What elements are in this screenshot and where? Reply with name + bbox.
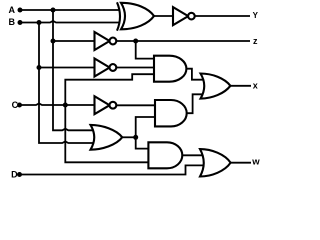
xor gate U1 input arc: [117, 2, 120, 30]
wire NOT1 output branch down to AND1 input 1: [136, 41, 156, 59]
wire OR2 output to x terminal: [230, 85, 251, 87]
node: input terminal D: [17, 172, 22, 177]
xor gate U1 body: [121, 3, 154, 30]
svg-text:A: A: [8, 5, 15, 15]
and gate U8 (bottom, to OR4): [148, 142, 182, 168]
and gate U6 (3-input, top): [154, 56, 186, 82]
node: input terminal A: [18, 8, 23, 13]
wire B horizontal to XOR (with hop over A-vertical): [20, 21, 120, 23]
node: junction A-vert to NOT1: [51, 39, 56, 44]
wire A vertical branch down to OR1 top input: [53, 10, 94, 130]
node: junction C line: [63, 103, 68, 108]
svg-text:x: x: [253, 81, 258, 91]
wire XOR output to NOT-Y: [154, 15, 173, 17]
wire C branch down to AND2 input 2: [65, 105, 150, 162]
svg-text:D: D: [11, 170, 18, 180]
node: input terminal B: [18, 20, 23, 25]
node: junction B-vert to NOT2: [37, 65, 42, 70]
wire D to OR4 bottom input: [20, 165, 204, 174]
wire AND1 output to OR2 top input: [186, 69, 204, 80]
inverter U4 (B-bar): [95, 59, 117, 77]
wire OR1 junction up to AND3 input 2: [136, 117, 157, 137]
inverter U5 (C-bar): [95, 96, 117, 114]
svg-text:w: w: [251, 157, 260, 168]
svg-text:C: C: [12, 100, 19, 110]
node: junction B line: [37, 20, 42, 25]
wire OR1 output to junction: [122, 136, 136, 138]
wire NOT1 output to z terminal: [117, 40, 250, 42]
svg-text:Y: Y: [253, 11, 259, 20]
wire OR4 output to w terminal: [231, 162, 251, 164]
wire NOT1 input from A vertical: [53, 40, 95, 42]
inverter U3 (A to z): [95, 32, 117, 50]
node: junction OR1 output: [133, 135, 138, 140]
wire AND3 output to OR2 bottom input: [187, 94, 204, 113]
or gate U11 (output w): [200, 149, 231, 176]
node: input terminal C: [17, 103, 22, 108]
node: junction A line: [51, 8, 56, 13]
wire A horizontal to XOR: [20, 9, 119, 11]
node: junction NOT1 output: [133, 39, 138, 44]
wire AND2 output to OR4 top input: [182, 154, 203, 156]
wire OR1 junction down to AND2 input 1: [136, 137, 150, 148]
wire NOT2 output to AND1 input 2: [117, 67, 156, 69]
svg-text:z: z: [253, 36, 258, 46]
wire NOT3 output to AND3 input 1: [117, 104, 157, 106]
and gate U7 (middle, to OR2): [155, 100, 187, 126]
wire B vertical branch down to OR1 bottom input: [39, 23, 94, 144]
inverter U2 (to Y): [173, 7, 195, 25]
or gate U10 (output x): [201, 74, 231, 99]
wire C horizontal to NOT3 (with hop over B-vertical): [20, 103, 97, 105]
wire NOT-Y output to Y terminal: [195, 15, 250, 17]
svg-text:B: B: [8, 17, 15, 27]
wire NOT2 input from B vertical: [39, 67, 95, 69]
wire C branch up to AND1 input 3: [65, 74, 156, 105]
or gate U9 (A+B): [91, 125, 123, 150]
